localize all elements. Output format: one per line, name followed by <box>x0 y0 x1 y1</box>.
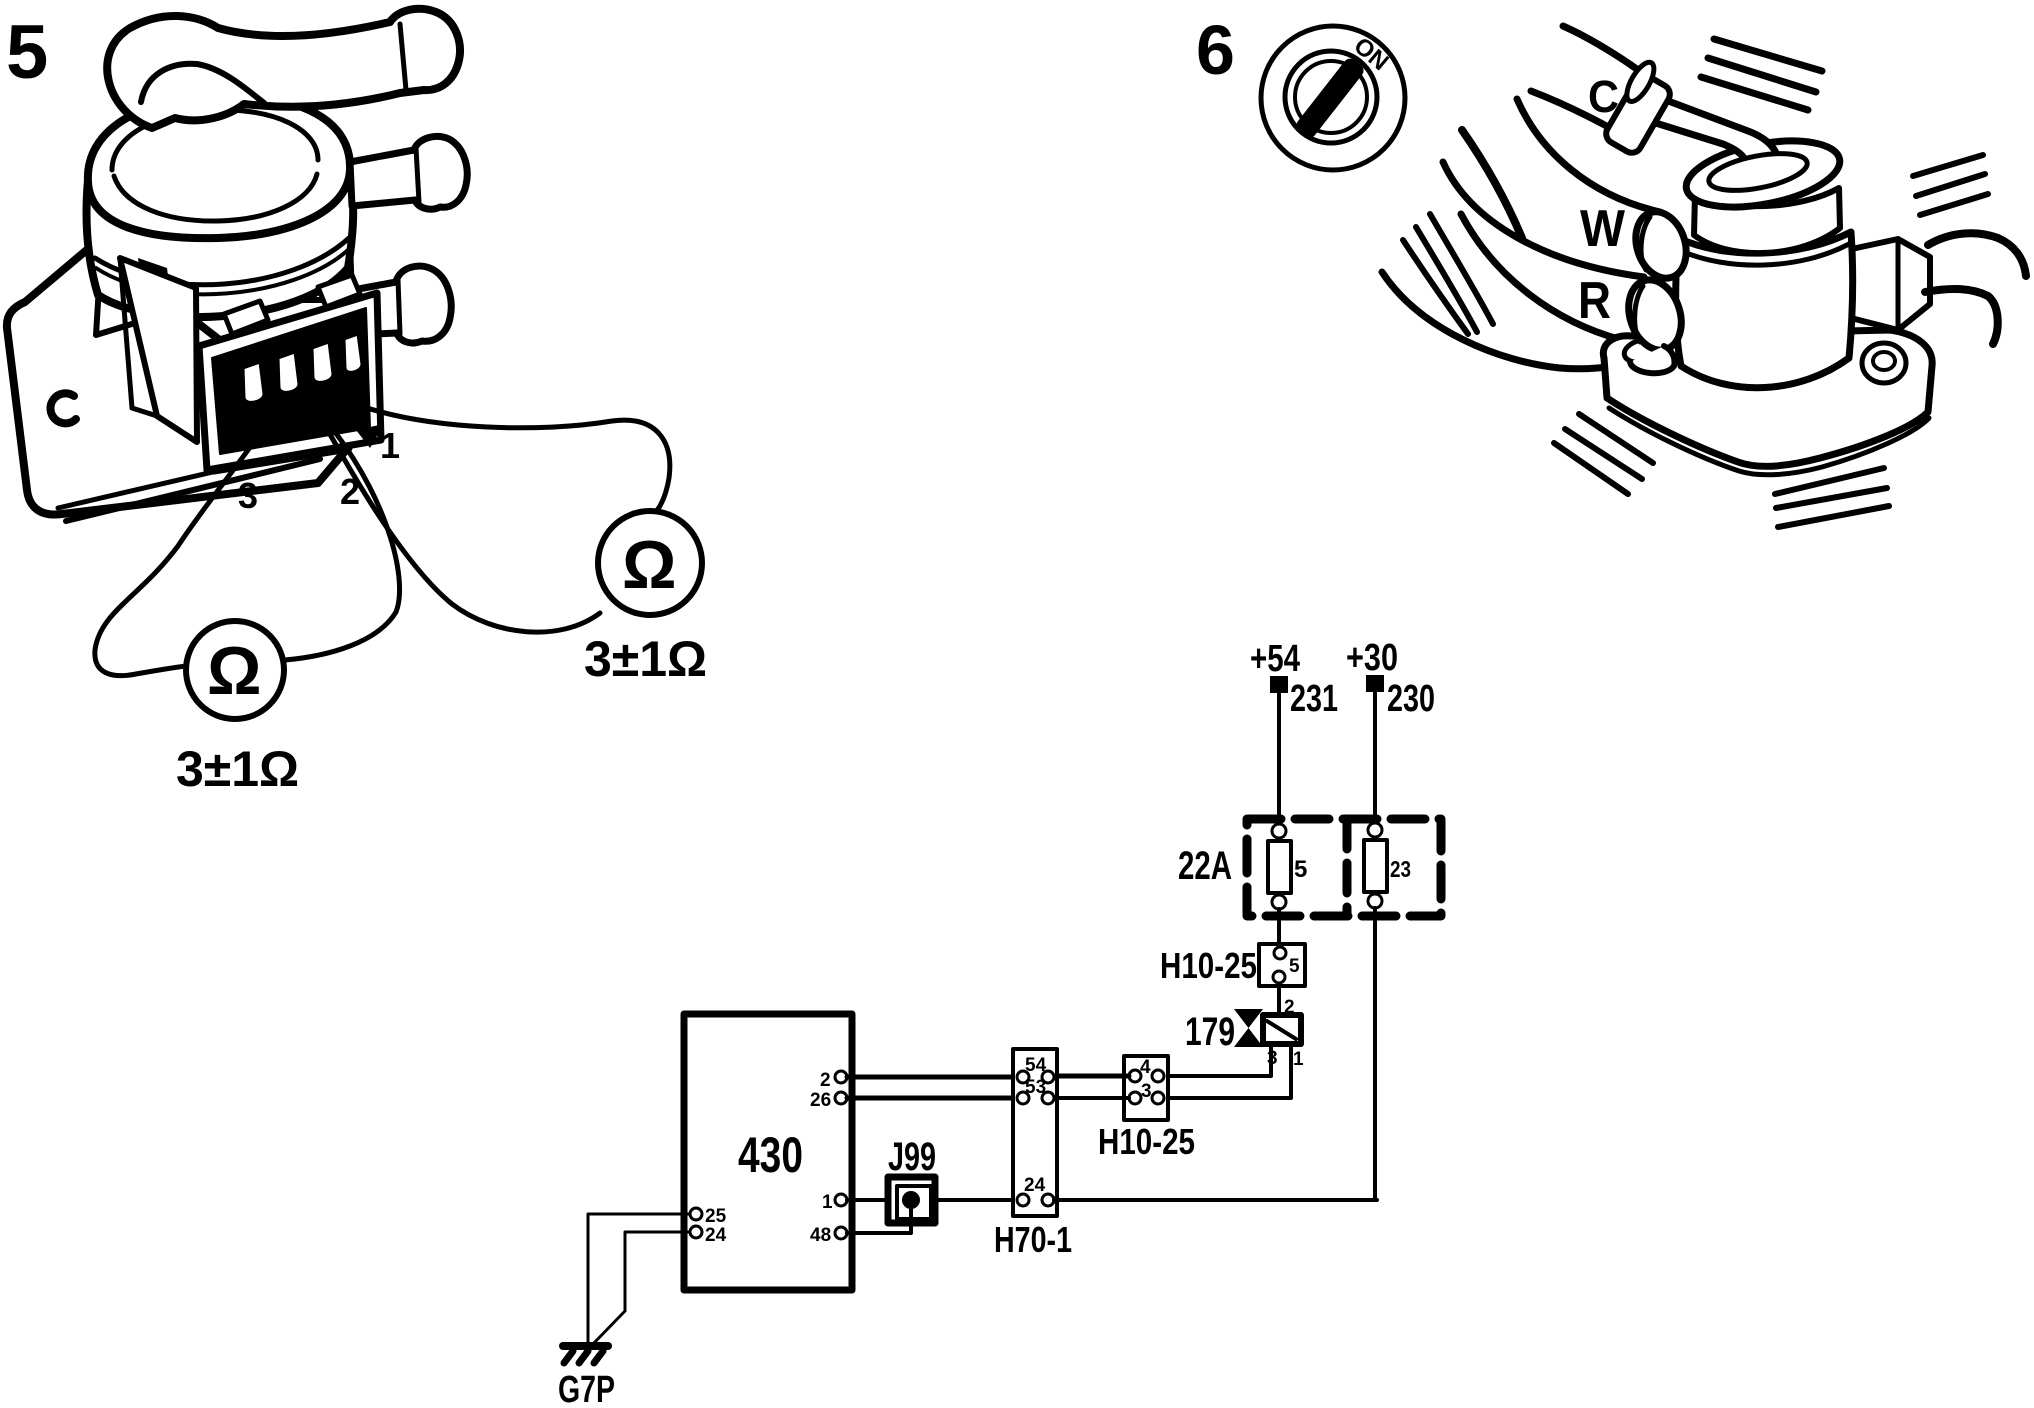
nipple collar (top) <box>400 24 406 90</box>
connector H70-1 <box>1013 1049 1057 1216</box>
svg-text:23: 23 <box>1390 856 1411 882</box>
hose C end ferrule <box>1599 58 1680 156</box>
right connector lug <box>1847 239 1930 330</box>
air valve illustration (fig 6) <box>1382 26 2026 475</box>
svg-text:R: R <box>1578 272 1611 330</box>
vibration lines left lower <box>1403 214 1493 334</box>
left ear hole <box>1622 336 1664 365</box>
hose nipple 2 (middle right) <box>350 136 467 209</box>
svg-text:231: 231 <box>1290 678 1338 720</box>
valve top flange outer <box>1681 130 1846 219</box>
svg-text:1: 1 <box>380 425 400 466</box>
svg-text:3: 3 <box>1141 1081 1152 1102</box>
svg-text:5: 5 <box>6 10 48 95</box>
ignition switch symbol <box>1261 26 1405 170</box>
left ohmmeter <box>186 621 284 719</box>
connector opening (black) <box>212 308 370 454</box>
W nipple <box>1628 205 1695 285</box>
fuse 23 <box>1368 823 1382 837</box>
valve bowtie <box>1234 1009 1263 1047</box>
vibration mark in W band <box>1462 130 1522 238</box>
fuse box outline (dashed) <box>1247 819 1441 916</box>
valve neck <box>1694 188 1840 253</box>
wire pin 24 to ground <box>593 1232 690 1344</box>
svg-text:6: 6 <box>1196 11 1235 89</box>
svg-text:1: 1 <box>822 1192 833 1213</box>
fuse 5 <box>1272 824 1286 838</box>
pin 25 <box>690 1208 702 1220</box>
hose C upper arc <box>1563 26 1656 84</box>
valve mounting flange <box>7 243 352 515</box>
shadow bar under connector <box>214 448 348 470</box>
U-shaped tube on top <box>107 9 460 128</box>
wire fuse 5 to connector H10-25 <box>1277 909 1281 946</box>
connector wedge support <box>120 258 197 442</box>
svg-text:54: 54 <box>1025 1055 1047 1076</box>
valve body <box>1676 232 1853 388</box>
wire pin 25 to ground <box>588 1214 690 1345</box>
svg-text:G7P: G7P <box>558 1369 615 1408</box>
pin 1 <box>835 1194 847 1206</box>
svg-text:Ω: Ω <box>622 527 677 603</box>
flange front edge line under connector <box>58 447 320 508</box>
test wire from pin 3 to left ohmmeter <box>95 430 262 676</box>
terminal +54 <box>1270 676 1288 693</box>
svg-text:5: 5 <box>1289 956 1300 977</box>
svg-text:3±1Ω: 3±1Ω <box>584 631 707 687</box>
wire H70-1 24 to right riser <box>1054 1198 1377 1202</box>
test wire from left ohmmeter to pin 2 <box>285 432 400 660</box>
flange hole (C shape) <box>50 393 76 423</box>
hose R upper arc <box>1461 214 1622 340</box>
wire pin 26 to H70-1 <box>847 1096 1018 1101</box>
svg-text:3±1Ω: 3±1Ω <box>176 741 299 797</box>
connector top tabs <box>224 301 268 334</box>
svg-text:24: 24 <box>705 1225 727 1246</box>
fuse box divider <box>1343 819 1352 916</box>
svg-text:53: 53 <box>1025 1077 1046 1098</box>
vibration lines right middle <box>1913 155 1988 215</box>
svg-text:179: 179 <box>1185 1010 1235 1054</box>
svg-text:430: 430 <box>738 1127 803 1183</box>
shadow between body and wedge <box>138 258 170 292</box>
wire valve pin3 to H10-25 pin 4 <box>1164 1046 1271 1076</box>
cable from lug (upper) <box>1928 233 2026 276</box>
svg-text:3: 3 <box>238 475 258 516</box>
svg-text:2: 2 <box>820 1070 831 1091</box>
inlet tube from ferrule to valve top <box>1646 96 1778 182</box>
svg-text:H70-1: H70-1 <box>994 1219 1072 1260</box>
right ohmmeter <box>598 511 702 615</box>
wire connector to valve 179 pin 2 <box>1277 986 1281 1014</box>
svg-text:4: 4 <box>1140 1057 1151 1078</box>
pin 48 <box>835 1227 847 1239</box>
svg-text:230: 230 <box>1387 678 1435 720</box>
wire pin 1 to J99 and H70-1 <box>847 1198 1018 1202</box>
hose R lower arc <box>1382 272 1628 369</box>
connector block body <box>199 293 381 470</box>
pin 26 <box>835 1092 847 1104</box>
valve main body cylinder <box>86 168 353 317</box>
svg-text:5: 5 <box>1294 856 1307 883</box>
test wire from pin 1 to right ohmmeter <box>358 405 670 513</box>
wire valve pin1 to H10-25 pin 3 <box>1164 1046 1291 1098</box>
hose nipple 3 (lower right) <box>353 266 451 343</box>
valve body box <box>1263 1015 1301 1044</box>
svg-text:H10-25: H10-25 <box>1098 1121 1195 1162</box>
right ear hole <box>1873 352 1895 370</box>
test wire from pin 2 to right ohmmeter <box>318 413 600 632</box>
wire +54 to fuse 5 <box>1277 693 1281 824</box>
key bar <box>1294 56 1367 140</box>
J99 stem to pin 48 wire <box>847 1203 911 1233</box>
terminal +30 <box>1366 675 1384 692</box>
wire pin 2 to H70-1 <box>847 1075 1018 1080</box>
svg-text:24: 24 <box>1024 1175 1046 1196</box>
vibration lines top right <box>1701 39 1822 110</box>
svg-text:J99: J99 <box>888 1135 936 1179</box>
R nipple <box>1620 273 1690 357</box>
svg-text:1: 1 <box>1293 1049 1304 1070</box>
pin 2 <box>835 1071 847 1083</box>
flange bottom thickness line <box>66 459 320 521</box>
svg-text:25: 25 <box>705 1206 727 1227</box>
hose W lower arc <box>1443 162 1644 277</box>
wire +30 to fuse 23 <box>1373 692 1377 823</box>
callout arrow near pin 1 <box>356 424 384 448</box>
svg-text:Ω: Ω <box>207 633 262 709</box>
base flange thickness edge <box>1609 408 1929 475</box>
idle air valve illustration (fig 5) <box>7 9 467 521</box>
hose C lower arc <box>1531 91 1640 146</box>
svg-text:H10-25: H10-25 <box>1160 945 1257 986</box>
body shoulder seam <box>1679 244 1849 265</box>
vibration lines bottom right <box>1775 468 1889 527</box>
cable from lug (lower) <box>1925 289 1998 344</box>
top cap inner tier <box>112 110 318 170</box>
connector H10-25 (lower) <box>1124 1056 1168 1120</box>
base flange plate <box>1603 330 1932 466</box>
wire H70-1 54 to H10-25 4 <box>1054 1074 1129 1079</box>
svg-text:C: C <box>1588 71 1619 122</box>
ground G7P <box>563 1342 608 1350</box>
U-tube inner edge <box>141 64 264 103</box>
svg-text:W: W <box>1580 200 1626 258</box>
pin 24 <box>690 1226 702 1238</box>
hose W upper arc <box>1517 99 1660 212</box>
wire H70-1 53 to H10-25 3 <box>1054 1096 1129 1100</box>
svg-text:+54: +54 <box>1250 638 1300 680</box>
connector pins (white teeth) <box>243 334 362 402</box>
valve body lower skirt <box>96 240 352 335</box>
svg-text:+30: +30 <box>1346 637 1398 679</box>
vibration lines bottom left <box>1554 414 1653 494</box>
svg-text:26: 26 <box>810 1090 831 1111</box>
valve top cap (large disc) <box>88 96 350 238</box>
valve top flange inner <box>1706 147 1810 197</box>
svg-text:48: 48 <box>810 1225 831 1246</box>
right ear boss <box>1862 343 1906 383</box>
body seam arcs <box>95 238 349 285</box>
control unit 430 box <box>684 1014 852 1290</box>
lower nipple stub <box>1630 346 1675 373</box>
right riser wire from fuse 23 <box>1373 908 1377 1200</box>
svg-text:22A: 22A <box>1178 844 1232 888</box>
